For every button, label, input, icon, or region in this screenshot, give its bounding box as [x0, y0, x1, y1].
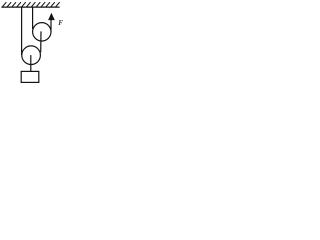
force arrow head	[48, 13, 55, 20]
ceiling hatching	[2, 2, 60, 7]
lower movable pulley	[22, 46, 41, 65]
upper pulley	[33, 23, 51, 41]
ceiling line	[1, 6, 59, 8]
wire left rope from ceiling to movable pulley	[21, 8, 23, 56]
svg-text:F: F	[58, 19, 63, 27]
weight block	[21, 71, 39, 82]
wire rope from upper pulley center to lower pulley right side	[40, 31, 42, 52]
wire rope on right of upper pulley to force arrow	[50, 20, 52, 31]
wire middle rope from ceiling to upper pulley	[32, 8, 34, 30]
wire axle rod from lower pulley to weight	[30, 55, 32, 71]
